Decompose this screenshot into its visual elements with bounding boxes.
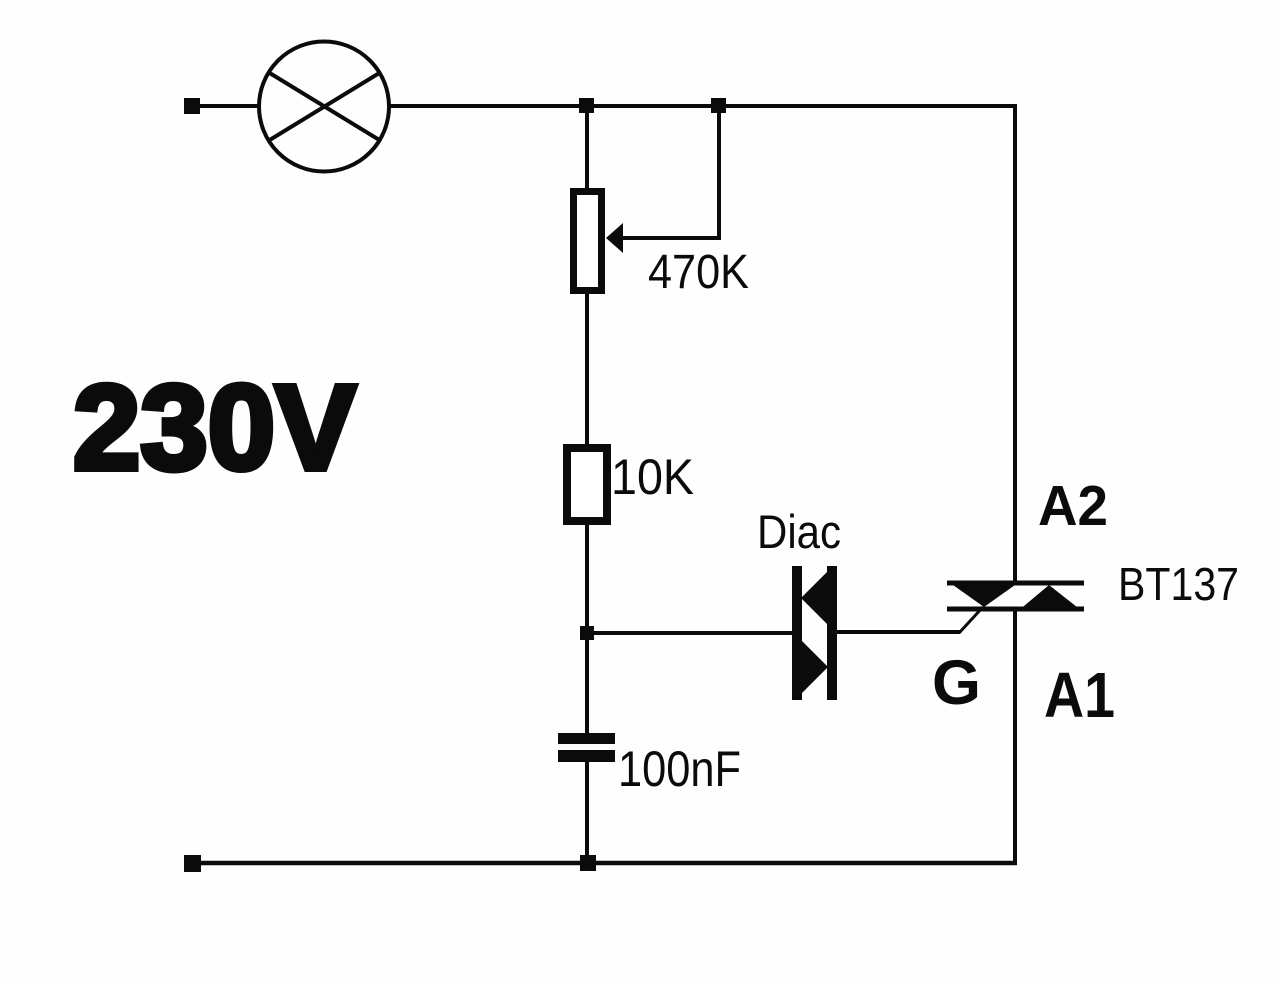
wire capacitor to bottom	[585, 762, 589, 863]
svg-text:230V: 230V	[73, 359, 356, 495]
wire junction to potentiometer	[585, 108, 589, 190]
wire terminal to lamp	[198, 104, 258, 108]
wire node to capacitor	[585, 640, 589, 735]
svg-text:10K: 10K	[611, 449, 694, 505]
svg-text:100nF: 100nF	[618, 741, 741, 797]
svg-text:A2: A2	[1038, 474, 1108, 538]
terminal bottom-left	[184, 855, 201, 872]
terminal top-left	[184, 98, 200, 114]
capacitor C1 100nF	[558, 733, 615, 762]
wire node to diac	[587, 631, 793, 635]
potentiometer P1 470K body	[574, 192, 602, 291]
node junction bottom	[580, 855, 596, 871]
svg-text:BT137: BT137	[1118, 558, 1239, 610]
wire potentiometer to resistor	[585, 294, 589, 448]
svg-text:Diac: Diac	[757, 505, 841, 558]
wire wiper vertical	[717, 112, 721, 240]
node junction top at pot	[579, 98, 594, 113]
svg-text:G: G	[932, 648, 981, 718]
wire wiper horizontal	[621, 236, 721, 240]
wire right vertical lower	[1013, 609, 1017, 865]
wire diac to gate	[837, 630, 960, 634]
wire lamp to top-right corner	[389, 104, 1017, 108]
diac D1	[792, 566, 837, 700]
gate diagonal lead	[959, 607, 983, 633]
wire resistor to node	[585, 525, 589, 633]
svg-text:A1: A1	[1044, 659, 1115, 731]
triac U1 BT137	[947, 583, 1084, 611]
wire right vertical upper	[1013, 104, 1017, 583]
resistor R1 10K body	[567, 448, 607, 521]
node junction mid	[580, 626, 594, 640]
svg-text:470K: 470K	[648, 246, 749, 299]
node junction top at wiper	[711, 98, 726, 113]
lamp L1	[259, 42, 389, 172]
potentiometer wiper arrow	[606, 223, 623, 253]
wire bottom	[199, 861, 1017, 866]
